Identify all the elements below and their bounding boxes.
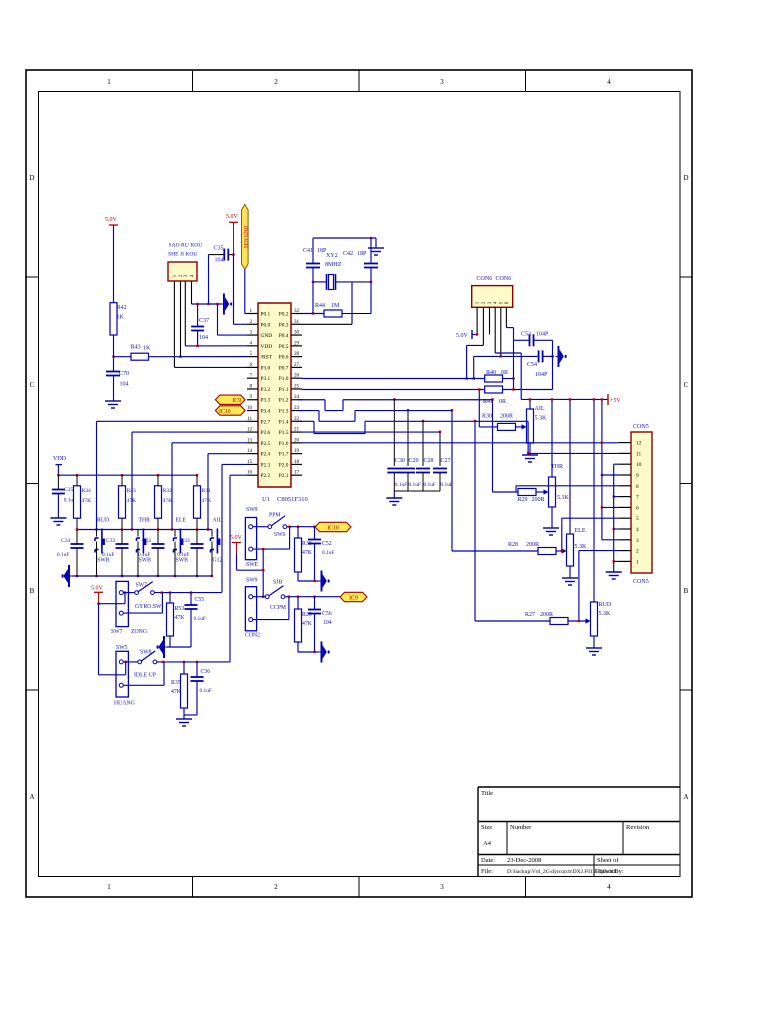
svg-text:16: 16 — [247, 470, 253, 476]
svg-text:5.0V: 5.0V — [230, 535, 243, 541]
svg-text:GYRO.SW: GYRO.SW — [135, 604, 162, 610]
svg-text:5.3K: 5.3K — [535, 416, 548, 422]
svg-text:P1.2: P1.2 — [279, 398, 289, 404]
svg-text:P0.1: P0.1 — [261, 312, 271, 318]
svg-text:ELE: ELE — [575, 528, 586, 534]
svg-text:R27: R27 — [525, 612, 535, 618]
svg-text:SHE JI KOU: SHE JI KOU — [168, 251, 197, 257]
svg-text:C53: C53 — [521, 332, 531, 338]
svg-text:26: 26 — [294, 373, 300, 379]
svg-text:P3.3: P3.3 — [261, 398, 271, 404]
svg-text:C42: C42 — [343, 251, 353, 257]
svg-text:1: 1 — [249, 308, 252, 314]
svg-text:IDLE UP: IDLE UP — [134, 673, 156, 679]
svg-text:P3.4: P3.4 — [261, 409, 271, 415]
svg-text:THR: THR — [551, 464, 564, 470]
svg-text:C35: C35 — [213, 246, 223, 252]
svg-text:SW7: SW7 — [111, 629, 123, 635]
svg-text:C29: C29 — [409, 458, 419, 464]
svg-text:IC9: IC9 — [232, 398, 241, 404]
svg-text:SWB: SWB — [176, 558, 189, 564]
svg-text:0R: 0R — [499, 399, 507, 405]
svg-text:2: 2 — [636, 549, 639, 555]
svg-text:SAO RU KOU: SAO RU KOU — [169, 243, 203, 249]
svg-text:18: 18 — [294, 459, 300, 465]
svg-text:P0.4: P0.4 — [279, 333, 289, 339]
svg-text:P2.0: P2.0 — [279, 462, 289, 468]
svg-text:0R: 0R — [501, 370, 509, 376]
svg-text:R29: R29 — [518, 497, 528, 503]
svg-text:2: 2 — [274, 883, 278, 891]
svg-text:C28: C28 — [424, 458, 434, 464]
svg-text:SW5: SW5 — [116, 645, 128, 651]
svg-text:CON2: CON2 — [245, 633, 260, 639]
svg-text:Title: Title — [481, 790, 493, 797]
svg-text:11: 11 — [636, 451, 641, 457]
svg-text:200R: 200R — [540, 612, 554, 618]
svg-text:0.1uF: 0.1uF — [395, 482, 407, 488]
svg-text:11: 11 — [247, 416, 252, 422]
svg-text:SWB: SWB — [97, 558, 110, 564]
svg-text:C41: C41 — [303, 248, 313, 254]
svg-text:20: 20 — [294, 437, 300, 443]
svg-text:U1: U1 — [262, 496, 270, 503]
svg-text:P0.2: P0.2 — [279, 312, 289, 318]
svg-text:3: 3 — [249, 330, 252, 336]
svg-text:File:: File: — [481, 868, 493, 875]
svg-text:8MHZ: 8MHZ — [325, 262, 342, 268]
svg-text:47K: 47K — [171, 689, 182, 695]
svg-text:/RST: /RST — [261, 355, 273, 361]
svg-text:P3.1: P3.1 — [261, 376, 271, 382]
svg-text:9: 9 — [249, 394, 252, 400]
svg-text:3: 3 — [440, 883, 444, 891]
svg-text:C36: C36 — [201, 669, 211, 675]
svg-text:AIL: AIL — [213, 518, 223, 524]
svg-text:P3.0: P3.0 — [261, 365, 271, 371]
svg-text:2: 2 — [249, 319, 252, 325]
svg-text:5.0V: 5.0V — [226, 214, 239, 220]
svg-text:30: 30 — [294, 330, 300, 336]
svg-text:C52: C52 — [322, 541, 332, 547]
svg-text:C70: C70 — [119, 371, 129, 377]
svg-text:47K: 47K — [163, 498, 173, 504]
svg-text:C37: C37 — [199, 318, 209, 324]
svg-text:C55: C55 — [195, 597, 205, 603]
svg-text:P2.5: P2.5 — [261, 441, 271, 447]
svg-text:200R: 200R — [532, 497, 546, 503]
svg-text:SW8: SW8 — [140, 650, 152, 656]
svg-text:104P: 104P — [535, 372, 548, 378]
svg-text:0.1uF: 0.1uF — [194, 616, 206, 622]
svg-text:1: 1 — [107, 883, 111, 891]
svg-text:SW9: SW9 — [246, 507, 258, 513]
svg-text:Number: Number — [510, 824, 532, 831]
svg-text:SWB: SWB — [139, 558, 152, 564]
svg-text:47K: 47K — [302, 621, 313, 627]
svg-text:P1.5: P1.5 — [279, 430, 289, 436]
svg-text:12: 12 — [247, 427, 253, 433]
svg-text:R53: R53 — [175, 606, 185, 612]
svg-text:7: 7 — [636, 495, 639, 501]
svg-text:15: 15 — [247, 459, 253, 465]
svg-text:47K: 47K — [175, 615, 186, 621]
svg-text:A: A — [29, 793, 34, 801]
svg-text:5.3K: 5.3K — [599, 611, 612, 617]
svg-text:5.0V: 5.0V — [105, 217, 118, 223]
svg-text:0.1uF: 0.1uF — [200, 688, 212, 694]
svg-text:R40: R40 — [486, 370, 496, 376]
svg-text:P2.7: P2.7 — [261, 419, 271, 425]
svg-text:R34: R34 — [82, 488, 92, 494]
svg-text:C: C — [684, 381, 689, 389]
svg-text:7: 7 — [249, 373, 252, 379]
svg-text:4: 4 — [249, 340, 252, 346]
svg-text:Drawn By:: Drawn By: — [595, 868, 624, 875]
svg-text:27: 27 — [294, 362, 300, 368]
svg-text:3: 3 — [636, 538, 639, 544]
svg-text:C34: C34 — [61, 538, 71, 544]
svg-text:10: 10 — [247, 405, 253, 411]
svg-text:RUD: RUD — [599, 602, 612, 608]
svg-text:P2.4: P2.4 — [261, 452, 271, 458]
svg-text:Size: Size — [481, 824, 492, 831]
svg-text:B: B — [684, 587, 689, 595]
svg-text:VDD: VDD — [261, 344, 273, 350]
svg-text:C54: C54 — [527, 362, 537, 368]
svg-text:31: 31 — [294, 319, 300, 325]
svg-text:P0.0: P0.0 — [261, 322, 271, 328]
svg-text:32: 32 — [294, 308, 300, 314]
svg-text:0.1uF: 0.1uF — [322, 550, 334, 556]
svg-text:SWE: SWE — [246, 562, 259, 568]
svg-text:SW7: SW7 — [136, 583, 148, 589]
svg-text:6: 6 — [636, 505, 639, 511]
svg-text:18P: 18P — [357, 251, 367, 257]
svg-text:5.0V: 5.0V — [456, 333, 469, 339]
svg-text:SEN GND: SEN GND — [243, 226, 249, 249]
svg-text:R32: R32 — [163, 488, 173, 494]
svg-text:2: 2 — [274, 78, 278, 86]
svg-text:104: 104 — [323, 620, 332, 626]
svg-text:104: 104 — [120, 382, 129, 388]
svg-text:47K: 47K — [202, 498, 212, 504]
svg-text:C: C — [30, 381, 35, 389]
svg-text:P1.0: P1.0 — [279, 376, 289, 382]
svg-text:200R: 200R — [500, 414, 514, 420]
svg-text:D: D — [683, 174, 688, 182]
svg-text:5: 5 — [636, 516, 639, 522]
svg-text:C27: C27 — [441, 458, 451, 464]
svg-text:4: 4 — [607, 78, 611, 86]
svg-text:GND: GND — [261, 333, 273, 339]
svg-text:PPM: PPM — [269, 513, 281, 519]
svg-text:23-Dec-2008: 23-Dec-2008 — [507, 857, 541, 864]
svg-text:THR: THR — [139, 518, 151, 524]
svg-text:47K: 47K — [127, 498, 137, 504]
svg-text:1: 1 — [636, 559, 639, 565]
svg-text:17: 17 — [294, 470, 300, 476]
svg-text:104: 104 — [214, 258, 223, 264]
svg-text:P1.4: P1.4 — [279, 419, 289, 425]
svg-text:P2.3: P2.3 — [261, 462, 271, 468]
svg-text:R43: R43 — [131, 345, 141, 351]
svg-text:0.1uF: 0.1uF — [409, 482, 421, 488]
svg-text:Revision: Revision — [626, 824, 650, 831]
svg-text:ELE: ELE — [176, 518, 187, 524]
svg-text:47K: 47K — [302, 550, 313, 556]
svg-text:21: 21 — [294, 427, 300, 433]
svg-text:3: 3 — [440, 78, 444, 86]
svg-text:13: 13 — [247, 437, 253, 443]
svg-text:104P: 104P — [536, 332, 549, 338]
svg-text:R35: R35 — [171, 680, 181, 686]
svg-text:P0.3: P0.3 — [279, 322, 289, 328]
svg-text:5: 5 — [249, 351, 252, 357]
svg-text:CON5: CON5 — [633, 579, 649, 585]
svg-text:1M: 1M — [331, 303, 340, 309]
svg-text:B: B — [30, 587, 35, 595]
svg-text:25: 25 — [294, 383, 300, 389]
svg-text:CON6: CON6 — [496, 276, 512, 282]
svg-text:SW9: SW9 — [246, 578, 258, 584]
svg-text:SW6: SW6 — [274, 532, 286, 538]
svg-text:D: D — [29, 174, 34, 182]
svg-text:R42: R42 — [117, 305, 127, 311]
svg-text:RUD: RUD — [97, 518, 109, 524]
svg-text:P1.7: P1.7 — [279, 452, 289, 458]
svg-text:R30: R30 — [482, 414, 492, 420]
svg-text:P2.6: P2.6 — [261, 430, 271, 436]
svg-text:Sheet of: Sheet of — [597, 857, 619, 864]
svg-text:CCPM: CCPM — [270, 605, 286, 611]
svg-text:A4: A4 — [483, 840, 492, 847]
svg-text:CON5: CON5 — [633, 424, 649, 430]
svg-text:P0.5: P0.5 — [279, 344, 289, 350]
svg-text:R44: R44 — [315, 303, 325, 309]
svg-text:10: 10 — [636, 462, 642, 468]
svg-text:A: A — [683, 793, 688, 801]
svg-text:14: 14 — [247, 448, 253, 454]
svg-text:P3.2: P3.2 — [261, 387, 271, 393]
svg-text:104: 104 — [199, 335, 208, 341]
svg-text:R31: R31 — [202, 488, 212, 494]
svg-text:IC10: IC10 — [219, 409, 231, 415]
svg-text:SJB: SJB — [273, 580, 282, 586]
svg-text:1: 1 — [107, 78, 111, 86]
svg-text:CON6: CON6 — [477, 276, 493, 282]
svg-text:C33: C33 — [106, 538, 116, 544]
svg-text:Date:: Date: — [481, 857, 495, 864]
svg-text:P2.2: P2.2 — [261, 473, 271, 479]
svg-text:5.3K: 5.3K — [575, 544, 588, 550]
svg-text:AIL: AIL — [535, 406, 545, 412]
svg-text:C8051F310: C8051F310 — [277, 496, 308, 503]
svg-text:P2.1: P2.1 — [279, 473, 289, 479]
svg-text:1K: 1K — [117, 315, 125, 321]
svg-text:19: 19 — [294, 448, 300, 454]
svg-text:6: 6 — [249, 362, 252, 368]
svg-text:P0.7: P0.7 — [279, 365, 289, 371]
svg-text:28: 28 — [294, 351, 300, 357]
svg-text:XY2: XY2 — [326, 253, 338, 259]
svg-text:P1.6: P1.6 — [279, 441, 289, 447]
svg-text:HUANG: HUANG — [114, 701, 135, 707]
svg-text:P1.3: P1.3 — [279, 409, 289, 415]
svg-text:0.1uF: 0.1uF — [57, 552, 69, 558]
svg-text:0.1uF: 0.1uF — [424, 482, 436, 488]
svg-text:R33: R33 — [127, 488, 137, 494]
svg-text:P1.1: P1.1 — [279, 387, 289, 393]
svg-text:0.1uF: 0.1uF — [441, 482, 453, 488]
svg-text:9: 9 — [636, 473, 639, 479]
svg-text:5.3K: 5.3K — [557, 495, 570, 501]
svg-text:4: 4 — [607, 883, 611, 891]
svg-text:29: 29 — [294, 340, 300, 346]
svg-text:IC9: IC9 — [349, 595, 358, 601]
svg-text:ZONG: ZONG — [131, 629, 147, 635]
svg-text:+5V: +5V — [610, 398, 621, 404]
svg-text:5.0V: 5.0V — [91, 586, 104, 592]
svg-text:C35: C35 — [64, 487, 74, 493]
svg-text:4: 4 — [636, 527, 639, 533]
svg-text:VDD: VDD — [53, 456, 67, 462]
svg-text:8: 8 — [636, 484, 639, 490]
svg-text:12: 12 — [636, 441, 642, 447]
svg-text:IC10: IC10 — [327, 525, 339, 531]
svg-text:G12: G12 — [213, 558, 223, 564]
svg-text:P0.6: P0.6 — [279, 355, 289, 361]
svg-text:47K: 47K — [82, 498, 92, 504]
svg-text:R28: R28 — [508, 542, 518, 548]
svg-text:200R: 200R — [526, 542, 540, 548]
svg-text:8: 8 — [249, 383, 252, 389]
svg-text:1K: 1K — [143, 346, 151, 352]
svg-text:C56: C56 — [322, 611, 332, 617]
svg-text:C30: C30 — [395, 458, 405, 464]
